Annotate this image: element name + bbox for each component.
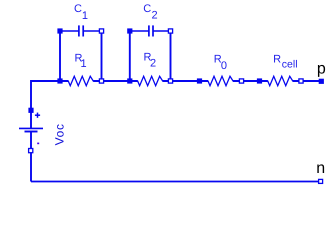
pin: battery minus open terminal	[29, 149, 33, 153]
pin: C2 right open terminal	[168, 29, 172, 33]
wire: C1 right branch vertical	[101, 31, 103, 81]
resistor R1	[60, 76, 102, 85]
svg-text:2: 2	[150, 58, 156, 70]
node: junction R1 left	[57, 78, 62, 83]
node: junction C1 left	[57, 28, 62, 33]
wire: C1 left branch vertical	[59, 31, 61, 81]
pin: R1 right open terminal	[99, 79, 103, 83]
svg-text:1: 1	[81, 58, 87, 70]
wire: rail Rcell to p terminal	[293, 80, 322, 82]
node: battery plus junction	[28, 108, 33, 113]
capacitor C1	[60, 25, 102, 36]
wire: top rail, battery corner to R1	[31, 81, 68, 128]
pin: R0 right open terminal	[239, 79, 243, 83]
wire: rail R0 to Rcell	[233, 80, 268, 82]
pin: Rcell right open terminal	[299, 79, 303, 83]
resistor Rcell	[260, 76, 302, 85]
resistor R2	[130, 76, 171, 85]
capacitor C2	[130, 25, 171, 36]
node: junction R0 left	[197, 78, 202, 83]
pin: R2 right open terminal	[168, 79, 172, 83]
battery Voc	[19, 113, 43, 182]
node: junction C2 left	[127, 28, 132, 33]
node: junction Rcell left	[257, 78, 262, 83]
svg-text:Voc: Voc	[53, 123, 67, 145]
label Voc	[53, 123, 67, 145]
pin p (filled terminal)	[319, 79, 324, 84]
svg-text:R: R	[273, 53, 281, 65]
wire: C2 left branch vertical	[129, 31, 131, 81]
pin n (open terminal)	[319, 179, 323, 183]
svg-text:C: C	[74, 3, 82, 15]
svg-text:n: n	[316, 160, 325, 177]
svg-text:C: C	[143, 3, 151, 15]
wire: C2 right branch vertical	[170, 31, 172, 81]
node: junction R2 left	[127, 78, 132, 83]
pin: C1 right open terminal	[99, 29, 103, 33]
svg-text:cell: cell	[282, 59, 298, 71]
svg-text:1: 1	[82, 10, 88, 22]
svg-text:2: 2	[152, 10, 158, 22]
wire: rail R2 to R0	[163, 80, 208, 82]
resistor R0	[200, 76, 242, 85]
svg-text:0: 0	[221, 60, 227, 72]
wire: bottom rail	[31, 181, 321, 183]
wire: rail R1 to R2	[93, 80, 137, 82]
svg-text:p: p	[317, 60, 326, 77]
